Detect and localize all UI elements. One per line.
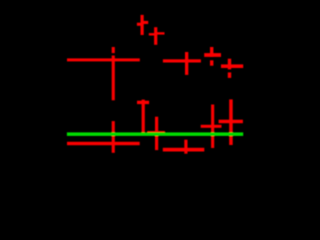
- point 5 x-error bar: [204, 53, 221, 57]
- data point 1 y-error lower bar: [112, 121, 115, 153]
- data point 1 x-error bar (long left horizontal): [67, 58, 140, 61]
- point 2 x-error bar left half: [137, 23, 143, 26]
- point 6 y-error bar upper: [228, 59, 231, 70]
- point 11 y-error bar: [229, 99, 233, 145]
- point 6 x-error bar (clipped at right edge): [221, 64, 243, 68]
- point 11 x-error bar: [219, 120, 243, 124]
- data point 1 y-error upper bar: [112, 56, 115, 101]
- point 5 y-error bar upper: [210, 47, 213, 57]
- point 9 y-error bar: [184, 140, 187, 154]
- point 2 y-error bar: [141, 15, 144, 35]
- point 9 x-error bar: [163, 148, 205, 152]
- point 2 x-error bar right half: [141, 21, 148, 24]
- point 3 x-error bar left half: [149, 33, 157, 35]
- point 10 y-error bar: [211, 105, 214, 149]
- point 8 y-error bar: [155, 117, 158, 150]
- point 5 y-error bar lower dash: [210, 60, 213, 65]
- point 4 y-error bar: [185, 52, 188, 75]
- point 6 y-error bar lower dash: [228, 72, 231, 78]
- point 4 x-error bar: [163, 59, 201, 62]
- point 8 x-error bar (mostly under green line): [147, 131, 165, 135]
- point 7 y-error bar: [142, 100, 145, 134]
- green model line: [67, 132, 243, 136]
- bottom-left x-error bar: [67, 142, 140, 145]
- point 3 y-error bar: [154, 27, 157, 45]
- point 3 x-error bar right half: [155, 32, 165, 34]
- point 10 x-error bar: [201, 125, 222, 128]
- data point 1 y-error upper dash: [112, 47, 115, 53]
- point 7 x-error bar: [137, 101, 149, 104]
